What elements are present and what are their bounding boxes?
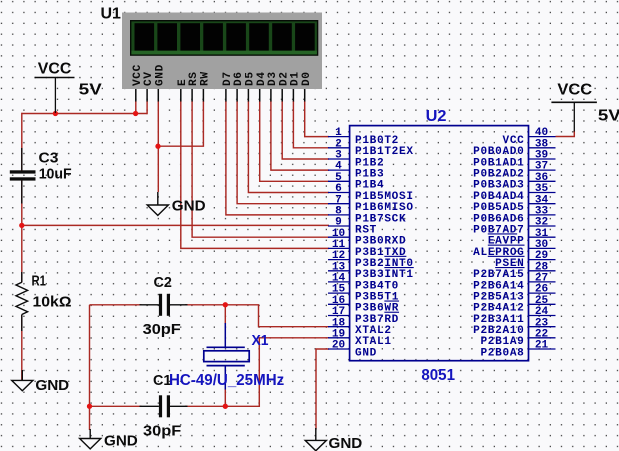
wire LCD D4 pin to U2 pin 5 xyxy=(260,101,329,181)
svg-text:10: 10 xyxy=(332,228,346,240)
ground symbol left (below R1) xyxy=(12,370,69,394)
U2 pin 8 P1B7SCK xyxy=(328,206,406,226)
svg-text:PSEN: PSEN xyxy=(495,258,524,270)
U2 pin 29 PSEN xyxy=(495,250,555,270)
node RST rail junction xyxy=(19,223,24,228)
ground symbol bottom-center (U2 GND) xyxy=(305,428,362,451)
svg-text:C2: C2 xyxy=(154,275,172,291)
svg-text:10kΩ: 10kΩ xyxy=(33,294,72,310)
capacitor C2 30pF xyxy=(140,275,188,338)
LCD display area xyxy=(130,20,318,56)
capacitor C1 30pF xyxy=(140,373,188,440)
op-amp U2 8051 box xyxy=(350,108,529,384)
svg-text:P0B2AD2: P0B2AD2 xyxy=(473,169,524,181)
svg-text:15: 15 xyxy=(332,284,346,296)
svg-text:38: 38 xyxy=(535,138,549,150)
U2 pin 26 P2B5A13 xyxy=(473,284,555,304)
wire VCC rail top-left to LCD VCC/CV xyxy=(22,113,147,115)
svg-text:P0B7AD7: P0B7AD7 xyxy=(473,224,524,236)
U1 pin D7 xyxy=(222,71,234,101)
wire LCD D0 pin to U2 pin 1 xyxy=(305,101,329,137)
svg-text:5V: 5V xyxy=(79,82,102,99)
U1 pin D5 xyxy=(245,71,257,101)
U1 pin E xyxy=(177,79,189,102)
svg-text:25: 25 xyxy=(535,295,549,307)
ground symbol bottom-left (caps) xyxy=(80,429,138,450)
svg-text:11: 11 xyxy=(332,239,346,251)
svg-text:9: 9 xyxy=(335,217,342,229)
svg-text:19: 19 xyxy=(332,328,345,340)
U1 pin D3 xyxy=(267,71,279,101)
svg-text:VCC: VCC xyxy=(132,64,144,86)
svg-text:RW: RW xyxy=(200,71,212,86)
svg-text:XTAL1: XTAL1 xyxy=(355,336,392,348)
U1 pin D2 xyxy=(278,71,290,101)
U2 pin 23 P2B2A10 xyxy=(473,317,555,337)
wire LCD D3 pin to U2 pin 4 xyxy=(271,101,329,170)
svg-text:P0B5AD5: P0B5AD5 xyxy=(473,202,524,214)
U2 pin 30 ALEPROG xyxy=(473,239,555,259)
wire LCD CV pin drop xyxy=(146,101,148,114)
U2 pin 27 P2B6A14 xyxy=(473,273,555,293)
svg-text:P1B6MISO: P1B6MISO xyxy=(355,202,414,214)
wire U2 pin 20 GND to bottom ground xyxy=(316,349,329,430)
svg-text:D3: D3 xyxy=(267,71,279,86)
svg-text:37: 37 xyxy=(535,161,548,173)
svg-text:CV: CV xyxy=(143,71,155,86)
wire LCD RW pin to GND net xyxy=(158,101,203,146)
U2 pin 5 P1B4 xyxy=(328,172,384,192)
svg-text:VCC: VCC xyxy=(502,135,524,147)
svg-text:17: 17 xyxy=(332,306,345,318)
U2 pin 3 P1B2 xyxy=(328,150,384,170)
U1 pin CV xyxy=(143,71,155,101)
U1 pin D1 xyxy=(290,71,302,101)
wire LCD GND pin to ground xyxy=(157,101,159,192)
U2 pin 2 P1B1T2EX xyxy=(328,138,414,158)
wire crystal bottom stub net xyxy=(224,389,226,406)
svg-text:P0B4AD4: P0B4AD4 xyxy=(473,191,524,203)
wire left crystal-cap rail to bottom-left ground xyxy=(89,305,91,430)
U2 pin 12 P3B2INT0 xyxy=(328,250,414,270)
svg-text:16: 16 xyxy=(332,295,346,307)
svg-text:5V: 5V xyxy=(598,108,619,125)
svg-text:P0B0AD0: P0B0AD0 xyxy=(473,146,524,158)
svg-text:ALEPROG: ALEPROG xyxy=(473,247,524,259)
svg-text:8051: 8051 xyxy=(421,367,455,384)
svg-text:E: E xyxy=(177,79,189,86)
svg-text:14: 14 xyxy=(332,273,346,285)
ground symbol below LCD xyxy=(147,192,205,215)
U2 pin 4 P1B3 xyxy=(328,161,384,181)
U2 pin 1 P1B0T2 xyxy=(328,127,399,147)
svg-text:26: 26 xyxy=(535,284,549,296)
svg-text:21: 21 xyxy=(535,340,549,352)
svg-text:P3B7RD: P3B7RD xyxy=(355,314,399,326)
U2 pin 33 P0B6AD6 xyxy=(473,206,555,226)
svg-text:7: 7 xyxy=(335,194,342,206)
U1 pin VCC xyxy=(132,64,144,101)
svg-text:R1: R1 xyxy=(32,273,47,289)
svg-text:P3B1TXD: P3B1TXD xyxy=(355,247,406,259)
svg-text:31: 31 xyxy=(535,228,549,240)
node LCD VCC pin junction xyxy=(133,111,138,116)
node LCD GND/RW junction xyxy=(155,144,160,149)
svg-text:1: 1 xyxy=(335,127,342,139)
svg-text:RS: RS xyxy=(188,71,200,86)
U2 pin 32 P0B7AD7 xyxy=(473,217,555,237)
wire C2 to crystal top node to U2 pin 18 (XTAL2) xyxy=(90,305,330,327)
U2 pin 34 P0B5AD5 xyxy=(473,194,555,214)
svg-text:P2B1A9: P2B1A9 xyxy=(480,336,524,348)
U2 pin 15 P3B5T1 xyxy=(328,284,399,304)
svg-text:D6: D6 xyxy=(233,71,245,86)
power VCC symbol top-right 5V xyxy=(551,82,619,132)
svg-text:29: 29 xyxy=(535,250,548,262)
U2 pin 6 P1B5MOSI xyxy=(328,183,414,203)
U2 pin 37 P0B2AD2 xyxy=(473,161,555,181)
svg-text:GND: GND xyxy=(172,198,206,215)
svg-text:P1B5MOSI: P1B5MOSI xyxy=(355,191,414,203)
svg-text:10uF: 10uF xyxy=(39,166,72,182)
svg-text:34: 34 xyxy=(535,194,549,206)
U2 pin 36 P0B3AD3 xyxy=(473,172,555,192)
wire LCD E pin to U2 pin 11 xyxy=(181,101,329,248)
wire LCD RS pin to U2 pin 10 xyxy=(192,101,329,237)
U2 pin 38 P0B0AD0 xyxy=(473,138,555,158)
svg-text:VCC: VCC xyxy=(557,82,592,99)
wire LCD D6 pin to U2 pin 7 xyxy=(237,101,329,204)
svg-text:D4: D4 xyxy=(256,71,268,86)
wire left rail vertical (VCC to C3 to RST node to R1 to GND) xyxy=(21,113,23,381)
svg-text:GND: GND xyxy=(329,435,363,451)
U1 pin D6 xyxy=(233,71,245,101)
wire LCD D5 pin to U2 pin 6 xyxy=(248,101,329,193)
svg-text:D2: D2 xyxy=(278,71,290,86)
wire C1 to crystal bottom node to U2 pin 19 (XTAL1) xyxy=(90,338,330,407)
svg-text:EAVPP: EAVPP xyxy=(488,236,525,248)
svg-text:30pF: 30pF xyxy=(143,322,181,338)
U2 pin 20 GND xyxy=(328,340,377,360)
U2 pin 40 VCC xyxy=(502,127,555,147)
U2 pin 21 P2B0A8 xyxy=(480,340,555,360)
svg-text:VCC: VCC xyxy=(38,60,72,77)
svg-text:5: 5 xyxy=(335,172,342,184)
svg-text:GND: GND xyxy=(355,347,377,359)
svg-text:P2B3A11: P2B3A11 xyxy=(473,314,524,326)
wire crystal top stub net xyxy=(224,305,226,324)
LCD module U1 body xyxy=(101,6,323,89)
svg-text:P3B6WR: P3B6WR xyxy=(355,303,399,315)
U1 pin GND xyxy=(154,64,166,101)
svg-text:P2B0A8: P2B0A8 xyxy=(480,347,524,359)
svg-text:P1B4: P1B4 xyxy=(355,180,384,192)
svg-text:D0: D0 xyxy=(301,71,313,86)
svg-text:22: 22 xyxy=(535,328,548,340)
svg-text:D7: D7 xyxy=(222,71,234,86)
node crystal bottom junction xyxy=(223,404,228,409)
wire RST net from left rail to U2 pin 9 xyxy=(22,224,329,226)
svg-text:GND: GND xyxy=(104,433,138,450)
svg-text:D1: D1 xyxy=(290,71,302,86)
U2 pin 10 P3B0RXD xyxy=(328,228,406,248)
U2 pin 9 RST xyxy=(328,217,377,237)
wire LCD D1 pin to U2 pin 2 xyxy=(293,101,329,148)
svg-text:U2: U2 xyxy=(426,108,447,125)
svg-text:HC-49/U_25MHz: HC-49/U_25MHz xyxy=(169,372,284,389)
U2 pin 25 P2B4A12 xyxy=(473,295,555,315)
svg-text:GND: GND xyxy=(154,64,166,86)
U2 pin 16 P3B6WR xyxy=(328,295,399,315)
svg-text:36: 36 xyxy=(535,172,549,184)
svg-text:P2B6A14: P2B6A14 xyxy=(473,280,524,292)
node cap ground rail junction xyxy=(87,404,92,409)
svg-text:32: 32 xyxy=(535,217,548,229)
node VCC stem junction xyxy=(53,111,58,116)
U2 pin 19 XTAL1 xyxy=(328,328,392,348)
svg-text:P1B3: P1B3 xyxy=(355,169,384,181)
svg-text:P1B1T2EX: P1B1T2EX xyxy=(355,146,414,158)
svg-text:20: 20 xyxy=(332,340,346,352)
U1 pin RW xyxy=(200,71,212,101)
svg-text:C3: C3 xyxy=(39,150,59,166)
svg-text:P3B2INT0: P3B2INT0 xyxy=(355,258,414,270)
wire LCD D7 pin to U2 pin 8 xyxy=(226,101,329,215)
U2 pin 24 P2B3A11 xyxy=(473,306,555,326)
svg-text:D5: D5 xyxy=(245,71,257,86)
wire LCD VCC pin drop xyxy=(135,101,137,114)
capacitor C3 10uF xyxy=(10,148,72,204)
U2 pin 35 P0B4AD4 xyxy=(473,183,555,203)
svg-text:30pF: 30pF xyxy=(143,424,181,440)
U2 pin 39 P0B1AD1 xyxy=(473,150,555,170)
wire VCC right to U2 pin 40 xyxy=(556,131,575,137)
wire LCD D2 pin to U2 pin 3 xyxy=(282,101,329,159)
U2 pin 22 P2B1A9 xyxy=(480,328,555,348)
U2 pin 17 P3B7RD xyxy=(328,306,399,326)
svg-text:P0B3AD3: P0B3AD3 xyxy=(473,180,524,192)
crystal X1 HC-49/U_25MHz xyxy=(169,323,284,390)
svg-text:30: 30 xyxy=(535,239,549,251)
svg-text:6: 6 xyxy=(335,183,342,195)
power VCC symbol top-left 5V xyxy=(35,60,103,113)
U1 pin D0 xyxy=(301,71,313,101)
U2 pin 11 P3B1TXD xyxy=(328,239,406,259)
node crystal top junction xyxy=(223,302,228,307)
svg-text:35: 35 xyxy=(535,183,549,195)
svg-text:P3B5T1: P3B5T1 xyxy=(355,292,399,304)
svg-text:GND: GND xyxy=(35,377,69,394)
U2 pin 7 P1B6MISO xyxy=(328,194,414,214)
svg-text:4: 4 xyxy=(335,161,342,173)
U1 pin D4 xyxy=(256,71,268,101)
svg-text:12: 12 xyxy=(332,250,345,262)
svg-text:24: 24 xyxy=(535,306,549,318)
svg-text:RST: RST xyxy=(355,224,377,236)
svg-text:P2B4A12: P2B4A12 xyxy=(473,303,524,315)
svg-text:2: 2 xyxy=(335,138,342,150)
svg-text:X1: X1 xyxy=(252,332,269,349)
svg-text:U1: U1 xyxy=(101,6,122,23)
svg-text:P3B4T0: P3B4T0 xyxy=(355,280,399,292)
U2 pin 18 XTAL2 xyxy=(328,317,392,337)
U2 pin 14 P3B4T0 xyxy=(328,273,399,293)
svg-text:27: 27 xyxy=(535,273,548,285)
U1 pin RS xyxy=(188,71,200,101)
U2 pin 31 EAVPP xyxy=(488,228,556,248)
U2 pin 28 P2B7A15 xyxy=(473,261,555,281)
svg-text:P3B0RXD: P3B0RXD xyxy=(355,236,406,248)
svg-text:P1B0T2: P1B0T2 xyxy=(355,135,399,147)
svg-text:40: 40 xyxy=(535,127,549,139)
svg-text:P2B5A13: P2B5A13 xyxy=(473,292,524,304)
resistor R1 10k xyxy=(16,272,72,331)
U2 pin 13 P3B3INT1 xyxy=(328,261,414,281)
